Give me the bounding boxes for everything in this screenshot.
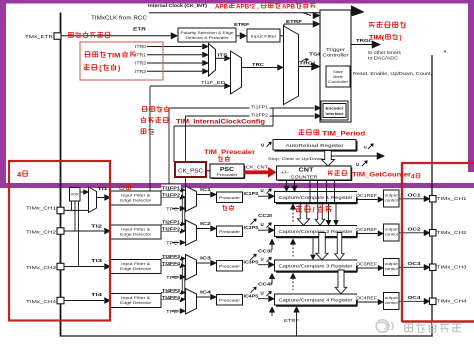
svg-text:TI4FP3: TI4FP3 — [162, 288, 181, 293]
svg-text:TIMx_CH2: TIMx_CH2 — [437, 230, 468, 235]
svg-text:ETR: ETR — [133, 27, 147, 33]
block Capture/Compare 4 Register — [275, 294, 357, 305]
svg-text:TI1FP1: TI1FP1 — [162, 185, 181, 190]
svg-text:Internal Clock (CK_INT): Internal Clock (CK_INT) — [148, 3, 208, 8]
block CNT Counter — [277, 166, 352, 180]
svg-text:TRC: TRC — [252, 62, 265, 67]
below register4: ETRF return — [271, 309, 273, 317]
svg-text:Prescaler: Prescaler — [217, 173, 239, 177]
svg-text:ITR2: ITR2 — [135, 61, 147, 66]
svg-text:CNT: CNT — [299, 168, 314, 174]
wires TIxFP outputs ch2 — [161, 223, 179, 225]
wire CH1 to mux — [64, 209, 89, 211]
wire update out — [332, 155, 378, 157]
wire into register 4 — [258, 298, 268, 300]
svg-text:control: control — [385, 301, 398, 305]
svg-text:TIMx_CH4: TIMx_CH4 — [437, 299, 468, 304]
svg-text:OC4: OC4 — [408, 295, 422, 300]
red box: right 4-channels — [402, 162, 474, 164]
svg-text:TI2FP2: TI2FP2 — [251, 113, 269, 118]
block: Encoder Interface — [321, 101, 348, 120]
svg-text:Controller: Controller — [328, 80, 349, 84]
svg-text:Polarity Selection & Edge: Polarity Selection & Edge — [181, 31, 234, 35]
svg-text:U: U — [261, 291, 264, 296]
svg-text:output: output — [385, 193, 398, 197]
svg-text:TI4: TI4 — [91, 292, 103, 297]
svg-text:Edge Detector: Edge Detector — [120, 301, 152, 305]
svg-text:Input Filter &: Input Filter & — [121, 262, 151, 266]
block: Polarity Selection & Edge Detector & Prescaler — [178, 28, 236, 42]
inter-register arrows gap1 — [292, 205, 294, 222]
svg-text:OC3: OC3 — [408, 261, 422, 266]
svg-text:Mode: Mode — [333, 75, 343, 79]
wires TI1FP1 / TI2FP2 to encoder — [169, 107, 314, 109]
wire OC4REF — [357, 301, 378, 303]
block: Trigger Controller — [320, 10, 351, 122]
svg-text:control: control — [385, 233, 398, 237]
thick red arrow CK_CNT — [244, 170, 269, 174]
wire: vertical fp routing — [168, 108, 170, 191]
block Prescaler ch1 — [217, 192, 243, 203]
svg-text:TMx_ETR: TMx_ETR — [25, 34, 54, 40]
block XOR — [70, 188, 81, 202]
svg-text:Trigger: Trigger — [326, 47, 346, 52]
svg-text:TI4FP4: TI4FP4 — [162, 295, 181, 300]
mux IC3 select — [186, 255, 197, 281]
red note: input signal as clock source — [141, 106, 143, 111]
port TIMx_CH4 output — [430, 298, 437, 305]
svg-text:TIMx_CH1: TIMx_CH1 — [26, 206, 57, 211]
wire into register 1 — [258, 195, 268, 197]
wire into register 2 — [258, 229, 268, 231]
svg-text:TIMxCLK from RCC: TIMxCLK from RCC — [91, 16, 147, 22]
svg-text:OC1: OC1 — [408, 193, 422, 198]
svg-text:TFC: TFC — [166, 241, 178, 246]
svg-text:Controller: Controller — [323, 52, 350, 57]
mux TI1 select — [89, 187, 97, 213]
block Capture/Compare 1 Register — [275, 192, 357, 203]
block Prescaler ch4 — [217, 295, 243, 306]
block Prescaler ch3 — [217, 261, 243, 272]
wire OC3 — [399, 266, 424, 268]
wire: left input rail — [60, 13, 62, 337]
watermark text — [405, 323, 413, 325]
svg-text:TGI: TGI — [309, 52, 320, 57]
svg-text:Input Filter: Input Filter — [251, 33, 278, 38]
svg-text:Input Filter &: Input Filter & — [121, 296, 151, 300]
svg-text:TIMx_CH4: TIMx_CH4 — [26, 299, 57, 304]
wire IC2 — [197, 228, 211, 230]
svg-text:Edge Detector: Edge Detector — [120, 267, 152, 271]
mux IC2 select — [186, 220, 197, 246]
mux IC4 select — [186, 289, 197, 315]
svg-text:U: U — [261, 188, 264, 193]
wire TFC ch4 — [172, 310, 179, 312]
svg-text:TI1: TI1 — [98, 186, 109, 191]
wires CNT to capture compare — [286, 180, 288, 186]
wire ETR — [61, 35, 171, 37]
wire TFC ch2 — [172, 242, 179, 244]
block output control 2 — [384, 224, 400, 241]
wire OC1REF — [357, 199, 378, 201]
wire OC2REF — [357, 233, 378, 235]
red box: left 4-channels — [9, 161, 110, 321]
svg-text:IC1: IC1 — [200, 187, 212, 192]
wire TRGI — [299, 66, 312, 68]
svg-text:control: control — [385, 267, 398, 271]
red note: output to other TIM — [369, 21, 375, 23]
svg-text:TFC: TFC — [166, 309, 178, 314]
svg-text:AutoReload Register: AutoReload Register — [286, 143, 345, 148]
svg-text:TIM_Prescaler: TIM_Prescaler — [204, 149, 255, 156]
svg-text:Detector & Prescaler: Detector & Prescaler — [186, 36, 230, 40]
svg-text:OC2: OC2 — [408, 227, 422, 232]
svg-text:control: control — [385, 199, 398, 203]
annotation arrowhead APB note — [351, 6, 364, 17]
wires TIxFP outputs ch4 — [161, 292, 179, 294]
port TIMx_CH2 output — [430, 230, 437, 237]
svg-text:TI3FP4: TI3FP4 — [162, 261, 181, 266]
wire: CK_INT line — [149, 12, 352, 14]
wire TI3 — [64, 266, 104, 268]
svg-text:ETRF: ETRF — [284, 318, 299, 323]
svg-text:TI1FP1: TI1FP1 — [251, 105, 269, 110]
svg-text:,: , — [257, 3, 259, 10]
svg-text:TI1FP2: TI1FP2 — [162, 192, 181, 197]
svg-text:Slave: Slave — [333, 70, 343, 74]
svg-text:TI3: TI3 — [91, 258, 103, 263]
svg-text:Edge Detector: Edge Detector — [120, 199, 152, 203]
stray dot artifact — [444, 51, 446, 53]
block output control 3 — [384, 259, 400, 276]
wire into register 3 — [258, 264, 268, 266]
wire IC1 — [197, 194, 211, 196]
svg-text:ITR3: ITR3 — [135, 69, 147, 74]
svg-text:CK_PSC: CK_PSC — [178, 168, 203, 174]
svg-text:Prescaler: Prescaler — [219, 299, 241, 303]
wires TIxFP cross routing — [181, 190, 183, 224]
svg-text:TFC: TFC — [166, 275, 178, 280]
svg-text:COUNTER: COUNTER — [291, 174, 319, 179]
wire TRC — [242, 67, 278, 69]
svg-text:CC4I: CC4I — [258, 281, 272, 286]
red box CK_PSC — [175, 162, 206, 177]
wires compare values crossing register1 — [309, 180, 311, 203]
svg-text:output: output — [385, 262, 398, 266]
svg-text:TIM: TIM — [107, 53, 120, 60]
block Prescaler ch2 — [217, 226, 243, 237]
port TIMx_CH3 output — [430, 264, 437, 271]
wire: right output rail — [431, 55, 433, 337]
block Input Filter & Edge Detector 3 — [111, 260, 162, 274]
svg-text:TI1F_ED: TI1F_ED — [201, 80, 225, 85]
red note: filter — [119, 185, 121, 190]
svg-text:TI2: TI2 — [91, 223, 103, 228]
svg-text:TI2FP1: TI2FP1 — [162, 219, 181, 224]
svg-text:ETRF: ETRF — [286, 19, 302, 24]
svg-text:to DAC/ADC: to DAC/ADC — [368, 56, 398, 61]
svg-text:Prescaler: Prescaler — [219, 265, 241, 269]
wire TI1F_ED — [149, 86, 151, 191]
svg-text:IC2: IC2 — [200, 221, 212, 226]
svg-text:U: U — [261, 257, 264, 262]
svg-text:TRGI: TRGI — [299, 61, 315, 66]
svg-text:ETRP: ETRP — [234, 22, 249, 27]
svg-text:XOR: XOR — [71, 192, 80, 196]
svg-text:TIM_InternalClockConfig: TIM_InternalClockConfig — [176, 119, 265, 126]
purple highlight frame (top section) — [0, 0, 474, 4]
svg-text:OC1REF: OC1REF — [356, 193, 378, 198]
red note: clock from other TIM — [84, 52, 86, 57]
red note: reload value TIM_Period — [299, 129, 305, 131]
svg-text:+/-: +/- — [280, 170, 290, 175]
block output control 4 — [384, 293, 400, 310]
wire TI1 — [97, 197, 105, 199]
XOR input branches — [71, 201, 73, 210]
wire OC4 — [399, 300, 424, 302]
watermark logo — [376, 320, 393, 333]
svg-text:APB: APB — [282, 3, 295, 10]
wire XOR out — [80, 191, 85, 193]
svg-text:Capture/Compare 1 Register: Capture/Compare 1 Register — [279, 195, 354, 200]
svg-text:Interface: Interface — [326, 112, 344, 116]
svg-text:TFC: TFC — [166, 207, 178, 212]
svg-text:ITR1: ITR1 — [135, 52, 147, 57]
svg-text:Prescaler: Prescaler — [219, 230, 241, 234]
block: Input Filter — [247, 29, 280, 42]
block Input Filter & Edge Detector 1 — [111, 191, 162, 205]
wire TFC ch3 — [172, 276, 179, 278]
svg-text:u: u — [364, 145, 367, 150]
wire OC2 — [399, 232, 424, 234]
wires TIxFP outputs ch3 — [161, 258, 179, 260]
svg-text:Stop, Clear or Up/Down: Stop, Clear or Up/Down — [268, 156, 323, 161]
wire ETRP — [236, 35, 240, 37]
svg-text:U: U — [356, 162, 359, 167]
red note: external clock input — [69, 31, 74, 33]
svg-text:TIM_Period: TIM_Period — [322, 130, 365, 137]
red note: prescale ch — [222, 205, 227, 207]
svg-text:OC3REF: OC3REF — [356, 261, 378, 266]
block PSC prescaler — [210, 164, 244, 178]
svg-text:to other timers: to other timers — [368, 50, 401, 55]
block Capture/Compare 2 Register — [275, 226, 357, 237]
inter-register arrows gap3 — [292, 274, 294, 290]
wire TI4 — [64, 300, 104, 302]
svg-text:TIMx_CH2: TIMx_CH2 — [26, 229, 57, 234]
block Capture/Compare 3 Register — [275, 260, 357, 271]
svg-text:TIMx_CH3: TIMx_CH3 — [437, 265, 468, 270]
wire: bottom ETRF return line — [60, 335, 433, 337]
block Input Filter & Edge Detector 2 — [111, 225, 162, 239]
wires TIxFP outputs ch1 — [161, 189, 179, 191]
svg-text:output: output — [385, 296, 398, 300]
svg-text:APB: APB — [215, 3, 228, 10]
mux: clock source selector — [284, 26, 299, 105]
red note: capture/compare — [296, 205, 302, 207]
red ITR annotation box — [80, 42, 163, 80]
svg-text:Encoder: Encoder — [326, 107, 345, 111]
block: Slave Mode Controller — [326, 66, 350, 87]
svg-text:4: 4 — [411, 174, 415, 181]
svg-text:CC2I: CC2I — [258, 213, 272, 218]
svg-text:IC1PS: IC1PS — [244, 191, 259, 196]
mux IC1 select — [186, 186, 197, 212]
wire ETRF to trigger controller — [280, 35, 284, 37]
svg-text:OC2REF: OC2REF — [356, 227, 378, 232]
svg-text:output: output — [385, 227, 398, 231]
svg-text:IC4: IC4 — [200, 290, 212, 295]
svg-text:IC4PS: IC4PS — [244, 293, 259, 298]
svg-text:APB*2: APB*2 — [236, 3, 255, 10]
inter-register arrows gap2 — [292, 240, 294, 257]
svg-text:Prescaler: Prescaler — [219, 196, 241, 200]
svg-text:TI2FP2: TI2FP2 — [162, 226, 181, 231]
block output control 1 — [384, 190, 400, 207]
wire OC1 — [399, 198, 424, 200]
wire TI2 — [64, 230, 104, 232]
svg-text:Input Filter &: Input Filter & — [121, 193, 151, 197]
wire OC3REF — [357, 267, 378, 269]
svg-text:CC3I: CC3I — [258, 248, 272, 253]
wire TFC ch1 — [172, 208, 179, 210]
svg-text:U: U — [261, 222, 264, 227]
svg-text:): ) — [118, 66, 120, 73]
block Input Filter & Edge Detector 4 — [111, 294, 162, 308]
svg-text:PSC: PSC — [220, 167, 234, 173]
port TIMx_CH1 output — [430, 196, 437, 203]
hollow arrow ARR to CNT — [322, 151, 335, 167]
mux: ITS selector — [209, 44, 216, 77]
wire: clock from inputs path — [272, 108, 274, 126]
wire IC4 — [197, 296, 211, 298]
svg-text:OC4REF: OC4REF — [356, 295, 378, 300]
purple divider line — [0, 183, 474, 188]
svg-text:Capture/Compare 4 Register: Capture/Compare 4 Register — [279, 298, 354, 303]
mux: trigger selection — [231, 51, 242, 94]
svg-text:TI3FP3: TI3FP3 — [162, 254, 181, 259]
svg-text:Reset, Enable, Up/Down, Count,: Reset, Enable, Up/Down, Count, — [353, 71, 432, 76]
wire+arrow: CK_INT into trigger controller — [303, 13, 311, 16]
svg-text:TIMx_CH3: TIMx_CH3 — [26, 265, 57, 270]
svg-text:IC3PS: IC3PS — [244, 259, 259, 264]
svg-text:IC3: IC3 — [200, 256, 212, 261]
svg-text:IC2PS: IC2PS — [244, 225, 259, 230]
svg-text:CK_CNT: CK_CNT — [246, 165, 268, 170]
svg-text:ITR0: ITR0 — [135, 44, 147, 49]
block AutoReload Register — [273, 140, 356, 151]
svg-text:): ) — [399, 35, 401, 42]
red note: counter — [328, 170, 333, 172]
wire IC3 — [197, 262, 211, 264]
svg-text:TIMx_CH1: TIMx_CH1 — [437, 196, 468, 201]
svg-text:Edge Detector: Edge Detector — [120, 233, 152, 237]
svg-text:Input Filter &: Input Filter & — [121, 227, 151, 231]
svg-text:Capture/Compare 3 Register: Capture/Compare 3 Register — [279, 264, 354, 269]
svg-text:TIM(: TIM( — [369, 35, 385, 42]
